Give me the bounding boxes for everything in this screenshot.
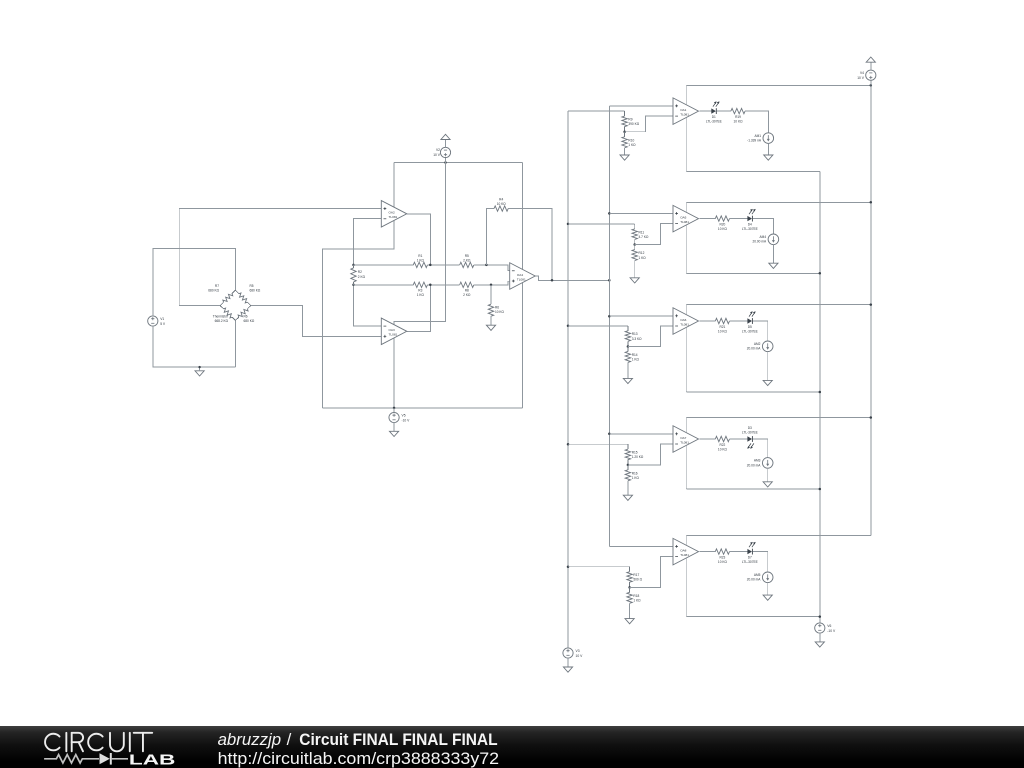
svg-text:abruzzjp: abruzzjp (218, 730, 282, 749)
svg-text:/: / (287, 730, 292, 749)
svg-text:http://circuitlab.com/crp38883: http://circuitlab.com/crp3888333y72 (218, 749, 500, 768)
svg-text:Circuit FINAL FINAL FINAL: Circuit FINAL FINAL FINAL (299, 730, 497, 749)
svg-text:LAB: LAB (129, 752, 176, 768)
